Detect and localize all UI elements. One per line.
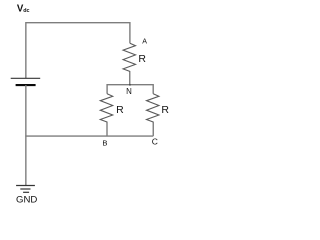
wire top horizontal from Vdc source to node A column — [26, 23, 130, 78]
svg-text:C: C — [152, 137, 158, 147]
resistor R1 (between node A and node N) — [123, 43, 135, 84]
battery V1 bottom plate (-) — [16, 84, 36, 86]
battery V1 top plate (+) — [11, 77, 41, 79]
svg-text:B: B — [102, 138, 107, 147]
ground symbol bar 1 — [16, 185, 35, 187]
wire node N horizontal — [107, 85, 153, 94]
node Vdc label — [17, 4, 30, 15]
svg-text:A: A — [142, 38, 147, 46]
wire left vertical from battery to ground — [25, 85, 27, 185]
svg-text:N: N — [126, 87, 132, 96]
svg-text:GND: GND — [16, 194, 37, 204]
ground symbol bar 3 — [23, 191, 29, 193]
svg-text:R: R — [138, 53, 146, 65]
svg-text:dc: dc — [23, 8, 29, 14]
svg-text:R: R — [116, 104, 124, 116]
node N junction — [129, 84, 131, 86]
resistor R2 (left branch, node N to node B) — [100, 94, 112, 136]
resistor R3 (right branch, node N to node C) — [147, 94, 159, 136]
wire bottom horizontal from left rail to node C — [25, 135, 153, 137]
ground symbol bar 2 — [20, 188, 30, 190]
svg-text:R: R — [161, 104, 169, 116]
